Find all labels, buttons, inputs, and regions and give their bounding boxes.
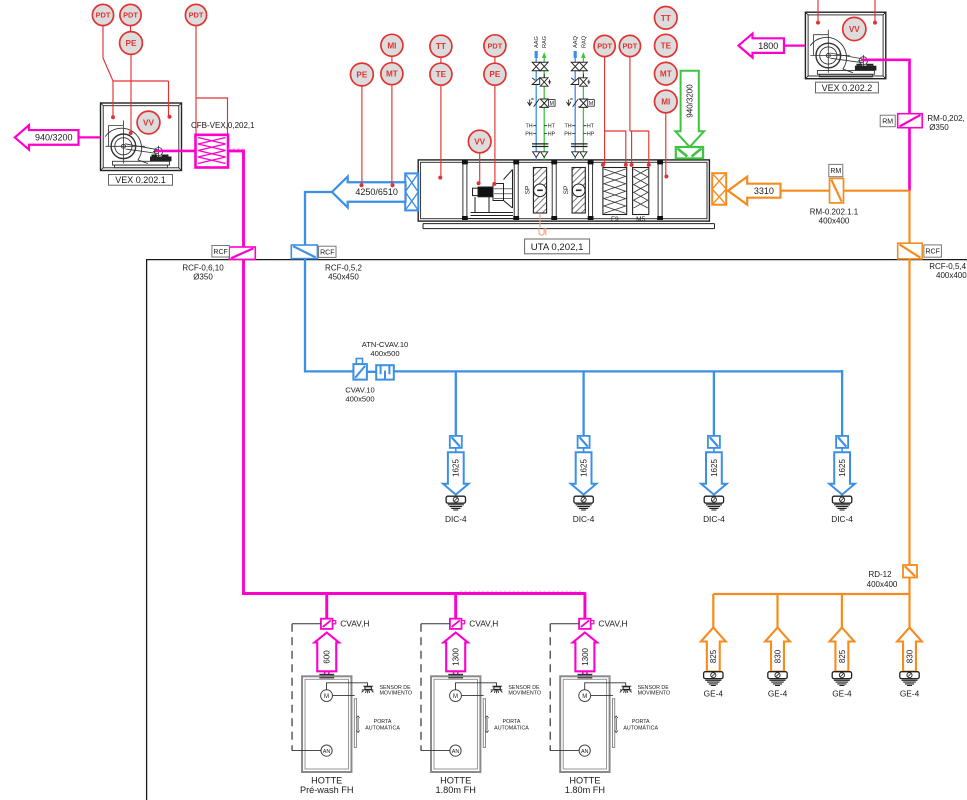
svg-text:PE: PE xyxy=(126,39,137,48)
hood damper CVAV,H at x=455.7 xyxy=(450,619,465,629)
wire PDT1 to fan box xyxy=(103,26,169,118)
return arrow 3310 xyxy=(728,177,781,205)
svg-text:SP: SP xyxy=(563,186,570,195)
svg-text:CVAV.10: CVAV.10 xyxy=(345,386,374,395)
wire PDT bracket coil F9 xyxy=(605,57,626,165)
instrument PE (left) xyxy=(120,32,143,55)
wire MT to supply arrow xyxy=(391,56,393,185)
svg-text:RAQ: RAQ xyxy=(581,35,587,48)
dynamic valve (supply) xyxy=(567,99,581,107)
branch connector xyxy=(455,448,457,452)
damper RCF-0,6,10 on wall xyxy=(229,247,255,259)
hood sensor wire xyxy=(456,683,497,690)
hood control dashed line xyxy=(291,624,293,751)
pipe AAQ (supply) xyxy=(574,51,576,160)
svg-text:3310: 3310 xyxy=(754,186,774,196)
instrument VV on VEX 0.202.1 xyxy=(137,111,160,134)
svg-text:GE-4: GE-4 xyxy=(704,689,724,699)
svg-text:HT: HT xyxy=(548,124,556,130)
svg-text:TE: TE xyxy=(661,42,672,51)
hood AN wire xyxy=(550,750,579,752)
svg-text:Ø350: Ø350 xyxy=(929,123,949,132)
svg-text:PDT: PDT xyxy=(96,11,111,20)
svg-text:PH: PH xyxy=(564,131,572,137)
wire up from dot left xyxy=(817,0,819,23)
hood sensor wire xyxy=(327,683,368,690)
svg-text:M: M xyxy=(550,101,555,107)
svg-text:MOVIMENTO: MOVIMENTO xyxy=(508,691,541,697)
hood cabinet Pr&#233;-wash FH xyxy=(302,676,351,772)
damper RD-12 xyxy=(903,565,917,578)
hood damper CVAV,H at x=584.9 xyxy=(579,619,594,629)
svg-text:UTA 0,202,1: UTA 0,202,1 xyxy=(531,242,584,253)
hood collar xyxy=(319,674,334,679)
supply duct: arrow tip to RCF and main run xyxy=(305,192,842,436)
svg-text:MI: MI xyxy=(387,41,396,50)
hood cabinet 1.80m FH xyxy=(560,676,609,772)
svg-text:F9: F9 xyxy=(611,216,619,223)
hood automatic door xyxy=(354,699,356,748)
svg-text:CFB-VEX,0,202,1: CFB-VEX,0,202,1 xyxy=(191,121,255,130)
instrument PE (AHU left) xyxy=(351,63,374,86)
hood control dashed line xyxy=(549,624,551,751)
branch connector xyxy=(841,448,843,452)
svg-text:DIC-4: DIC-4 xyxy=(831,514,853,524)
label tag RM (above) xyxy=(829,164,843,176)
svg-text:PDT: PDT xyxy=(189,11,204,20)
diffuser branch at x=583.6 xyxy=(0,0,1,1)
svg-text:1300: 1300 xyxy=(581,647,590,665)
svg-text:PE: PE xyxy=(356,70,367,79)
svg-text:HOTTE: HOTTE xyxy=(311,776,342,786)
damper RM-0.202.1.1 xyxy=(830,178,844,203)
union xyxy=(540,144,548,147)
svg-text:MOVIMENTO: MOVIMENTO xyxy=(638,691,671,697)
svg-text:PORTA: PORTA xyxy=(503,719,521,725)
drain funnel xyxy=(541,152,548,157)
wire up from dot right xyxy=(874,0,876,23)
hood exhaust arrow 600 xyxy=(315,633,339,672)
svg-text:HP: HP xyxy=(548,131,556,137)
wall line vertical xyxy=(146,260,148,800)
wire dot left in VEX 0.202.1 xyxy=(111,115,115,119)
instrument PDT (left 1) xyxy=(92,4,113,25)
diffuser DIC-4 xyxy=(832,496,851,510)
svg-text:HOTTE: HOTTE xyxy=(569,776,600,786)
balancing valve (return) xyxy=(580,78,588,86)
pipe RAG (return) xyxy=(543,54,545,160)
instrument MI (AHU) xyxy=(381,34,403,56)
svg-text:1.80m FH: 1.80m FH xyxy=(565,785,605,795)
svg-text:VEX 0.202.1: VEX 0.202.1 xyxy=(115,175,166,185)
hood collar stub xyxy=(454,671,458,674)
gate valve xyxy=(580,62,588,70)
svg-text:PDT: PDT xyxy=(123,11,138,20)
wire PDT-PE to AHU fan xyxy=(494,57,496,184)
hood collar xyxy=(448,674,463,679)
hood AN device xyxy=(579,745,590,756)
insulation ticks on exhaust duct xyxy=(229,149,584,592)
extract grille branch 825 at x=713.3 xyxy=(0,0,1,1)
svg-text:RCF: RCF xyxy=(213,249,227,256)
fan impeller drawing VEX 0.202.1 xyxy=(105,121,171,168)
AHU casing UTA 0,202,1 xyxy=(418,160,709,221)
wire TE into AHU xyxy=(440,57,442,177)
AHU section dividers xyxy=(463,162,662,218)
branch damper xyxy=(836,436,848,448)
svg-text:SP: SP xyxy=(525,186,532,195)
gate valve xyxy=(540,62,548,70)
svg-text:RCF: RCF xyxy=(925,249,939,256)
svg-text:PORTA: PORTA xyxy=(632,719,650,725)
svg-text:PE: PE xyxy=(489,70,500,79)
wire dot left VEX 0.202.2 xyxy=(816,21,820,25)
return duct from AHU to RM damper and down xyxy=(713,191,909,628)
grille GE-4 xyxy=(768,672,787,686)
svg-text:MT: MT xyxy=(660,70,672,79)
green roof connection box xyxy=(676,147,703,158)
extract grille branch 830 at x=777.5 xyxy=(0,0,1,1)
svg-text:HT: HT xyxy=(587,124,595,130)
hood door wire xyxy=(461,695,483,697)
svg-text:1625: 1625 xyxy=(452,459,461,477)
wire PE to supply arrow xyxy=(361,86,363,185)
branch damper xyxy=(578,436,590,448)
hood door wire xyxy=(332,695,354,697)
grille GE-4 xyxy=(704,672,723,686)
svg-text:PDT: PDT xyxy=(623,42,638,51)
hood AN device xyxy=(321,745,332,756)
extract arrow 825 xyxy=(830,628,855,672)
motorized valve (return) xyxy=(580,99,588,107)
extract arrow 825 xyxy=(701,628,726,672)
hood collar stub xyxy=(325,671,329,674)
instrument TT (AHU right) xyxy=(655,6,678,29)
flex connection AHU left (blue) xyxy=(405,173,418,210)
instrument PDT (coil M5) xyxy=(619,35,640,56)
hood collar stub xyxy=(583,671,587,674)
gate valve xyxy=(532,62,540,70)
supply arrow 1625 xyxy=(701,452,727,494)
extract arrow 830 xyxy=(765,628,790,672)
svg-text:GE-4: GE-4 xyxy=(900,689,920,699)
svg-text:830: 830 xyxy=(905,649,914,663)
green exhaust-out arrow 940/3200 xyxy=(675,71,704,147)
fan box VEX 0.202.1 xyxy=(101,103,182,171)
svg-text:825: 825 xyxy=(709,649,718,663)
damper RCF-0,5,4 on wall (orange) xyxy=(898,243,923,259)
extract grille branch 825 at x=841.9 xyxy=(0,0,1,1)
AHU filter SP 2 xyxy=(572,168,585,214)
dynamic valve (supply) xyxy=(528,99,542,107)
svg-text:TH: TH xyxy=(565,124,572,130)
svg-text:1.80m FH: 1.80m FH xyxy=(436,785,476,795)
svg-text:MI: MI xyxy=(661,97,670,106)
instrument TE (AHU right) xyxy=(655,34,678,57)
damper CVAV.10 xyxy=(353,359,367,380)
porta automatica bracket xyxy=(356,716,359,733)
svg-text:RM: RM xyxy=(882,118,893,125)
instrument MT (AHU right) xyxy=(655,62,678,85)
check valve (supply) xyxy=(532,78,540,85)
diffuser DIC-4 xyxy=(574,496,593,510)
svg-text:AUTOMÁTICA: AUTOMÁTICA xyxy=(365,725,400,732)
svg-text:4250/6510: 4250/6510 xyxy=(355,187,398,197)
diffuser branch at x=455.8 xyxy=(0,0,1,1)
instrument VV on VEX 0.202.2 xyxy=(843,17,866,40)
svg-text:DIC-4: DIC-4 xyxy=(445,514,467,524)
instrument PDT (silencer) xyxy=(185,4,206,25)
wire PDT2-PE xyxy=(130,26,132,32)
svg-text:400x400: 400x400 xyxy=(867,580,898,589)
diffuser branch at x=713.9 xyxy=(0,0,1,1)
svg-text:AUTOMÁTICA: AUTOMÁTICA xyxy=(494,725,529,732)
svg-text:CVAV,H: CVAV,H xyxy=(469,619,498,629)
hood cabinet 1.80m FH xyxy=(431,676,480,772)
damper RM-0,202 (round) xyxy=(898,114,923,128)
motorized valve (return) xyxy=(540,99,548,107)
svg-text:VV: VV xyxy=(849,25,860,34)
hood exhaust arrow 1300 xyxy=(573,633,597,672)
hood control wire horizontal xyxy=(421,623,450,625)
svg-text:400x400: 400x400 xyxy=(819,216,850,225)
svg-text:Pré-wash FH: Pré-wash FH xyxy=(300,785,354,795)
damper RCF-0,5,2 on wall xyxy=(291,245,317,259)
hood sensor wire xyxy=(585,683,626,690)
hood collar xyxy=(578,674,593,679)
instrument VV (AHU fan) xyxy=(468,130,491,153)
svg-text:600: 600 xyxy=(323,650,332,664)
svg-text:1800: 1800 xyxy=(758,41,778,51)
grille GE-4 xyxy=(900,672,919,686)
svg-text:DIC-4: DIC-4 xyxy=(573,514,595,524)
diffuser branch at x=842.1 xyxy=(0,0,1,1)
wire PE to fan xyxy=(130,54,132,133)
svg-text:PH: PH xyxy=(525,131,533,137)
svg-text:400x500: 400x500 xyxy=(370,349,399,358)
wire dot right VEX 0.202.2 xyxy=(873,21,877,25)
exhaust arrow 1800 xyxy=(739,34,785,58)
wall line horizontal xyxy=(146,259,967,261)
grille GE-4 xyxy=(832,672,851,686)
svg-text:M: M xyxy=(582,694,587,700)
supply arrow 4250/6510 xyxy=(332,177,406,208)
drain funnel xyxy=(580,152,587,157)
AHU base plinth xyxy=(423,224,715,229)
motion sensor symbol xyxy=(491,686,503,693)
exhaust arrow 940/3200 xyxy=(15,125,79,149)
drain funnel xyxy=(572,152,579,157)
svg-text:AAQ: AAQ xyxy=(573,36,579,48)
pipe AAG (supply) xyxy=(535,51,537,160)
instrument PDT (coil F9) xyxy=(594,35,615,56)
hood automatic door xyxy=(483,699,485,748)
svg-text:VV: VV xyxy=(143,118,154,127)
svg-text:ATN-CVAV.10: ATN-CVAV.10 xyxy=(362,340,409,349)
svg-text:RCF-0,5,4: RCF-0,5,4 xyxy=(929,262,966,271)
supply arrow 1625 xyxy=(571,452,597,494)
svg-text:825: 825 xyxy=(838,649,847,663)
wire MI into AHU xyxy=(665,113,667,177)
svg-text:AUTOMÁTICA: AUTOMÁTICA xyxy=(623,725,658,732)
silencer CFB-VEX,0,202,1 xyxy=(196,135,229,168)
hood exhaust arrow 1300 xyxy=(444,633,468,672)
hood control dashed line xyxy=(420,624,422,751)
duct from arrow to VEX 0.202.1 xyxy=(79,136,101,138)
union xyxy=(532,144,540,147)
diffuser DIC-4 xyxy=(446,496,465,510)
svg-text:M: M xyxy=(453,694,458,700)
svg-text:RAG: RAG xyxy=(542,36,548,48)
orange drain U1 below filter xyxy=(539,214,546,235)
svg-text:DIC-4: DIC-4 xyxy=(703,514,725,524)
fan impeller drawing VEX 0.202.2 xyxy=(810,30,876,77)
wire VV to AHU fan xyxy=(479,153,481,183)
main exhaust duct: silencer to hoods xyxy=(228,151,585,619)
svg-text:CVAV,H: CVAV,H xyxy=(598,619,627,629)
svg-text:AN: AN xyxy=(323,749,331,755)
svg-text:940/3200: 940/3200 xyxy=(35,133,73,143)
extract arrow 830 xyxy=(897,628,922,672)
svg-text:1625: 1625 xyxy=(579,459,588,477)
label tag RM (left) xyxy=(880,115,895,127)
hood door wire xyxy=(591,695,613,697)
svg-text:MT: MT xyxy=(386,70,398,79)
union xyxy=(571,144,579,147)
hood motor M xyxy=(321,690,333,702)
svg-text:VEX 0.202.2: VEX 0.202.2 xyxy=(822,83,873,93)
motion sensor symbol xyxy=(620,686,632,693)
AHU filter SP 1 xyxy=(533,168,546,214)
fan box VEX 0.202.2 xyxy=(805,12,885,79)
svg-text:M: M xyxy=(324,694,329,700)
svg-text:MOVIMENTO: MOVIMENTO xyxy=(379,691,412,697)
svg-text:1625: 1625 xyxy=(710,459,719,477)
svg-text:TH: TH xyxy=(526,124,533,130)
hood AN wire xyxy=(292,750,321,752)
porta automatica bracket xyxy=(615,716,618,733)
hood motor M xyxy=(450,690,462,702)
svg-text:PDT: PDT xyxy=(597,42,612,51)
drain funnel xyxy=(533,152,540,157)
extract grille branch 830 at x=909.5 xyxy=(0,0,1,1)
wire PDT bracket coil M5 xyxy=(630,57,649,165)
motion sensor symbol xyxy=(362,686,374,693)
AHU fan motor xyxy=(468,170,515,219)
instrument MT (AHU) xyxy=(381,63,403,85)
wire dot right in VEX 0.202.1 xyxy=(168,115,172,119)
branch damper xyxy=(450,436,462,448)
label box VEX 0.202.1 xyxy=(109,175,173,186)
label box VEX 0.202.2 xyxy=(816,82,879,93)
svg-text:RM: RM xyxy=(830,168,841,175)
hood automatic door xyxy=(613,699,615,748)
svg-text:AAG: AAG xyxy=(534,36,540,48)
label tag RCF (left of magenta damper) xyxy=(212,246,229,258)
instrument PDT (AHU fan) xyxy=(484,35,506,57)
duct VEX 0.202.2 to RM damper xyxy=(861,60,910,191)
branch connector xyxy=(713,448,715,452)
svg-text:GE-4: GE-4 xyxy=(768,689,788,699)
balancing valve (return) xyxy=(540,78,548,86)
svg-text:TT: TT xyxy=(436,42,446,51)
svg-text:TE: TE xyxy=(436,70,447,79)
AHU coil M5 xyxy=(633,168,649,215)
instrument TE (AHU) xyxy=(430,63,452,85)
hood motor M xyxy=(579,690,591,702)
svg-text:RCF: RCF xyxy=(320,249,334,256)
svg-text:450x450: 450x450 xyxy=(328,273,359,282)
hood AN wire xyxy=(421,750,450,752)
instrument PDT (left 2) xyxy=(120,4,141,25)
AHU coil F9 xyxy=(603,168,627,215)
label tag RCF (right) xyxy=(924,245,942,257)
instrument MI (AHU right) xyxy=(655,90,678,113)
svg-text:400x400: 400x400 xyxy=(936,271,967,280)
attenuator ATN-CVAV.10 xyxy=(376,365,394,379)
svg-text:M5: M5 xyxy=(636,216,645,223)
pipe RAQ (return) xyxy=(582,54,584,160)
svg-text:CVAV,H: CVAV,H xyxy=(340,619,369,629)
union xyxy=(579,144,587,147)
svg-text:1625: 1625 xyxy=(838,459,847,477)
label box UTA 0,202,1 xyxy=(525,239,590,254)
svg-text:HP: HP xyxy=(587,131,595,137)
svg-text:940/3200: 940/3200 xyxy=(686,84,695,118)
duct fan to silencer xyxy=(155,150,196,153)
svg-text:RM-0,202,: RM-0,202, xyxy=(927,114,964,123)
svg-text:400x500: 400x500 xyxy=(345,395,374,404)
svg-text:HOTTE: HOTTE xyxy=(440,776,471,786)
svg-text:TT: TT xyxy=(661,14,671,23)
hood AN device xyxy=(450,745,461,756)
duct arrow to VEX 0.202.2 xyxy=(784,44,805,46)
svg-text:Ø350: Ø350 xyxy=(193,273,213,282)
svg-text:RCF-0,6,10: RCF-0,6,10 xyxy=(182,264,224,273)
svg-text:AN: AN xyxy=(581,749,589,755)
svg-text:830: 830 xyxy=(773,649,782,663)
svg-text:VV: VV xyxy=(474,137,485,146)
supply arrow 1625 xyxy=(829,452,855,494)
svg-text:1300: 1300 xyxy=(452,647,461,665)
instrument TT (AHU) xyxy=(430,35,452,57)
hood control wire horizontal xyxy=(292,623,321,625)
hood control wire horizontal xyxy=(550,623,579,625)
flex connection AHU right (orange) xyxy=(712,173,726,205)
hood damper CVAV,H at x=326.75 xyxy=(321,619,336,629)
svg-text:GE-4: GE-4 xyxy=(832,689,852,699)
svg-text:PDT: PDT xyxy=(488,41,503,50)
svg-text:RM-0.202.1.1: RM-0.202.1.1 xyxy=(810,207,859,216)
svg-text:M: M xyxy=(589,101,594,107)
check valve (supply) xyxy=(571,78,579,85)
supply arrow 1625 xyxy=(443,452,469,494)
branch damper xyxy=(708,436,720,448)
gate valve xyxy=(571,62,579,70)
branch connector xyxy=(583,448,585,452)
wire dot middle in VEX 0.202.1 xyxy=(129,131,133,135)
diffuser DIC-4 xyxy=(704,496,723,510)
label tag RCF (right of blue damper) xyxy=(319,246,336,257)
wire PDT3 bracket over silencer xyxy=(196,26,228,135)
instrument PE (AHU fan) xyxy=(484,63,506,85)
svg-text:PORTA: PORTA xyxy=(374,719,392,725)
svg-text:RD-12: RD-12 xyxy=(868,570,892,579)
svg-text:AN: AN xyxy=(452,749,460,755)
svg-text:RCF-0,5,2: RCF-0,5,2 xyxy=(325,264,362,273)
porta automatica bracket xyxy=(485,716,488,733)
